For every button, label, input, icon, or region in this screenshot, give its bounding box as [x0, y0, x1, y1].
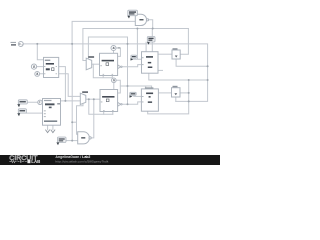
svg-text:http://circuitlab.com/c/58f5gz: http://circuitlab.com/c/58f5gzwy7kdk — [55, 160, 108, 164]
svg-text:F: F — [39, 101, 41, 105]
svg-text:LAB: LAB — [31, 159, 40, 164]
svg-text:AngelinaGuan / Lab2: AngelinaGuan / Lab2 — [55, 155, 90, 159]
